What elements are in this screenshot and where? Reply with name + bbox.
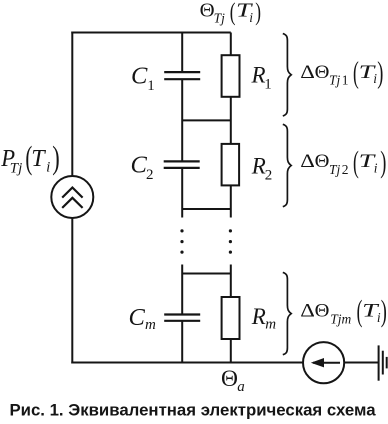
wire left rail lower segment: [71, 218, 73, 364]
current source U2 arrow shaft: [313, 362, 340, 364]
value label R1: [251, 62, 272, 92]
node label Theta_a bottom: [221, 366, 245, 395]
svg-text:Δ: Δ: [300, 301, 315, 322]
ellipsis dots resistor rail: [229, 229, 232, 253]
svg-text:C: C: [131, 62, 148, 89]
current source U1 P_Tj circle: [51, 176, 93, 218]
wire capacitor rail: stub above stage m to Cm: [181, 265, 183, 315]
svg-text:Tj: Tj: [329, 73, 341, 88]
svg-text:m: m: [265, 317, 276, 333]
current source U1 chevron 2: [62, 198, 82, 208]
capacitor C1: [164, 72, 200, 79]
svg-text:C: C: [129, 304, 146, 331]
svg-text:2: 2: [265, 168, 273, 184]
wire capacitor rail: Cm to bottom rail: [181, 321, 183, 363]
value label C2: [131, 151, 154, 183]
svg-text:R: R: [251, 62, 266, 87]
delta label stage 2: [300, 146, 386, 179]
svg-text:i: i: [374, 161, 378, 176]
svg-text:1: 1: [147, 78, 155, 94]
brace stage 2: [283, 124, 291, 206]
wire resistor rail: R1 to R2: [230, 97, 232, 144]
resistor R1: [222, 55, 240, 97]
svg-text:Tj: Tj: [10, 160, 23, 176]
svg-text:): ): [380, 146, 386, 179]
svg-text:(: (: [230, 0, 236, 26]
svg-text:1: 1: [264, 77, 272, 93]
wire resistor rail: Rm to bottom rail: [230, 339, 232, 363]
delta label stage m: [300, 295, 387, 328]
brace stage m: [283, 272, 291, 354]
svg-text:Рис. 1. Эквивалентная электрич: Рис. 1. Эквивалентная электрическая схем…: [9, 401, 376, 420]
svg-text:Θ: Θ: [315, 62, 330, 83]
wire resistor rail: R2 to stub below node 2: [230, 185, 232, 217]
current source U1 chevron 1: [62, 188, 82, 198]
wire stage 2 bottom boundary: [182, 208, 231, 210]
resistor R2: [222, 144, 240, 186]
resistor Rm: [222, 297, 240, 339]
svg-text:C: C: [131, 151, 148, 178]
current source U2 arrow head: [311, 358, 324, 367]
wire stage 1-2 boundary: [182, 119, 231, 121]
svg-text:Θ: Θ: [221, 366, 238, 392]
ground bar medium: [382, 351, 384, 375]
wire resistor rail: stub above stage m to Rm: [230, 265, 232, 298]
wire bottom rail left of source: [71, 362, 303, 364]
svg-text:T: T: [31, 146, 46, 172]
svg-text:Θ: Θ: [315, 301, 330, 322]
value label C1: [131, 62, 155, 94]
brace stage 1: [283, 34, 291, 116]
wire resistor rail: top node to R1: [230, 33, 232, 56]
svg-text:Θ: Θ: [315, 151, 330, 172]
svg-text:a: a: [237, 379, 245, 395]
svg-text:): ): [255, 0, 261, 26]
ground bar long: [378, 345, 380, 380]
svg-text:): ): [381, 296, 387, 329]
svg-text:Δ: Δ: [300, 151, 315, 172]
node label Theta_Tj(T_i) top: [200, 0, 261, 26]
svg-text:R: R: [251, 153, 266, 178]
svg-text:): ): [377, 57, 383, 90]
wire capacitor rail: top node to C1: [181, 33, 183, 73]
svg-text:2: 2: [342, 162, 349, 177]
ground bar short: [386, 357, 388, 369]
wire stage m top boundary: [182, 273, 231, 275]
svg-text:m: m: [145, 317, 156, 333]
ellipsis dots capacitor rail: [180, 229, 183, 253]
delta label stage 1: [300, 57, 383, 90]
svg-text:2: 2: [146, 167, 154, 183]
capacitor C2: [164, 161, 200, 168]
svg-text:Δ: Δ: [300, 62, 315, 83]
wire left rail upper segment: [71, 32, 73, 177]
wire top rail: [71, 32, 231, 34]
svg-text:): ): [52, 141, 59, 177]
capacitor Cm: [164, 315, 200, 321]
value label R2: [251, 153, 272, 183]
wire capacitor rail: C1 to C2: [181, 80, 183, 162]
svg-text:Tj: Tj: [329, 162, 341, 177]
svg-text:Θ: Θ: [200, 0, 215, 21]
source label P_Tj(T_i): [0, 139, 60, 177]
svg-text:i: i: [46, 160, 50, 176]
svg-text:Tjm: Tjm: [330, 311, 351, 326]
current source U2 ambient circle: [303, 342, 344, 383]
value label Rm: [251, 304, 276, 333]
svg-text:1: 1: [342, 73, 349, 88]
svg-text:R: R: [251, 304, 266, 329]
value label Cm: [129, 304, 157, 333]
svg-text:Tj: Tj: [214, 10, 226, 25]
svg-text:i: i: [249, 10, 253, 25]
wire capacitor rail: C2 to stub below node 2: [181, 168, 183, 217]
wire bottom rail right of source: [344, 362, 378, 364]
